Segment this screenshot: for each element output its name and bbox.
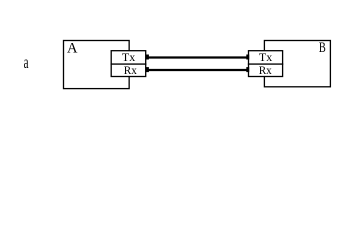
Tx connector tab B-side [246,55,249,60]
Rx box B-side [249,64,283,76]
wire Tx line [149,56,247,58]
box A (station A) [64,41,130,89]
Tx box B-side [249,51,283,64]
Rx connector tab B-side [246,67,249,72]
Rx connector tab A-side [146,67,149,72]
svg-text:B: B [319,40,326,56]
svg-text:Tx: Tx [122,50,135,64]
svg-text:Tx: Tx [259,50,272,64]
svg-text:A: A [67,40,78,56]
box B (station B) [264,41,330,87]
svg-text:Rx: Rx [259,63,272,77]
svg-text:Rx: Rx [124,63,137,77]
Rx box A-side [111,64,146,76]
Tx connector tab A-side [146,55,149,60]
Tx box A-side [111,51,146,64]
svg-text:a: a [24,52,29,72]
wire Rx line [149,69,247,71]
